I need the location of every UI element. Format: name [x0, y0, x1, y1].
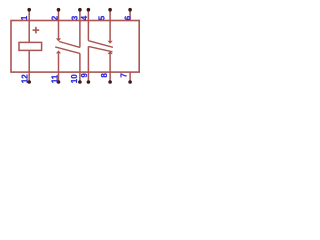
pin 4 — [87, 8, 91, 20]
pin 5 — [108, 8, 112, 20]
pin 6 — [128, 8, 132, 20]
pin 2 — [57, 8, 61, 20]
switch B contact wire pin 4 — [87, 20, 89, 41]
switch A upper blade from arrow tip to pin 3 wire — [59, 42, 80, 48]
switch A contact wire pin 3 — [79, 20, 81, 47]
pin 1 — [27, 8, 31, 20]
coil polarity plus sign — [33, 27, 40, 34]
switch B contact wire pin 5 — [109, 20, 111, 41]
switch A down arrowhead on pin 2 — [56, 38, 61, 41]
pin 8 — [108, 72, 112, 84]
pin 7 — [128, 72, 132, 84]
pin 10 — [78, 72, 82, 84]
svg-text:1: 1 — [20, 15, 29, 20]
svg-text:2: 2 — [51, 15, 60, 20]
pin 3 — [78, 8, 82, 20]
switch A contact wire pin 2 — [58, 20, 60, 39]
switch B upper blade from pin 4 kink to free end — [88, 41, 113, 48]
pin 11 — [57, 72, 61, 84]
svg-text:12: 12 — [21, 74, 30, 83]
coil wire to pin 12 — [28, 50, 30, 72]
switch B contact wire pin 9 — [87, 46, 89, 72]
coil K1 rectangle — [19, 42, 42, 50]
svg-text:8: 8 — [100, 73, 109, 78]
svg-text:9: 9 — [80, 73, 89, 78]
switch A contact wire pin 11 — [58, 53, 60, 72]
svg-text:7: 7 — [120, 73, 129, 78]
switch B contact wire pin 8 — [109, 54, 111, 72]
switch A up arrowhead on pin 11 — [56, 50, 61, 53]
switch B down arrowhead on pin 5 — [108, 41, 113, 44]
switch B lower blade from pin 9 kink to free end — [88, 46, 112, 51]
svg-text:11: 11 — [51, 74, 60, 83]
svg-text:5: 5 — [97, 15, 106, 20]
svg-text:3: 3 — [71, 15, 80, 20]
switch A lower blade free end to pin 10 wire — [55, 47, 80, 54]
switch B up arrowhead on pin 8 — [108, 51, 113, 54]
pin 9 — [87, 72, 91, 84]
svg-text:6: 6 — [124, 15, 133, 20]
pin 12 — [27, 72, 31, 84]
switch A contact wire pin 10 — [79, 53, 81, 72]
coil wire from pin 1 — [28, 20, 30, 42]
svg-text:4: 4 — [80, 15, 89, 20]
svg-text:10: 10 — [70, 74, 79, 83]
relay K1 outline box — [11, 21, 139, 73]
